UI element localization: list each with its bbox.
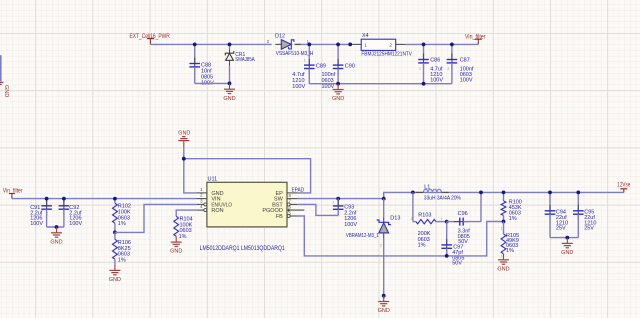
power port EXT_Cell16_PWR (130, 34, 171, 45)
ground below C91 C92 (50, 227, 62, 245)
junction C91 top (45, 197, 49, 201)
svg-text:1%: 1% (509, 216, 517, 222)
junction R103 C96 C97 node (445, 220, 449, 224)
svg-text:33uH 3A/4A 20%: 33uH 3A/4A 20% (424, 195, 461, 201)
svg-text:1: 1 (441, 217, 443, 221)
wire BST to C93 bottom (297, 204, 338, 215)
resistor R106 (113, 232, 131, 264)
inductor L1 33uH (416, 185, 461, 202)
wire SW rise to output rail (384, 192, 624, 198)
junction C86 top (422, 43, 426, 47)
svg-text:1%: 1% (506, 248, 514, 254)
wire RON to R104 (176, 210, 196, 216)
capacitor C87 (447, 44, 474, 83)
power port Vin_filter bottom (3, 189, 23, 199)
svg-text:SMAJ85A: SMAJ85A (235, 57, 255, 63)
capacitor C92 (59, 199, 83, 227)
power port Vin_filter top (465, 34, 486, 44)
junction C90 bottom (336, 82, 340, 86)
svg-text:50V: 50V (452, 260, 462, 266)
svg-text:RON: RON (211, 208, 223, 214)
junction C93 top (336, 197, 340, 201)
resistor R103 (413, 213, 447, 249)
node EPAD (292, 187, 305, 193)
svg-text:VSSAF510-M3_H: VSSAF510-M3_H (276, 51, 314, 57)
ground below CR1 (223, 83, 235, 101)
junction CR1 top (228, 43, 232, 47)
wire X4 to Vin_filter (405, 43, 478, 45)
wire ground to U11 GND pin and EPAD (184, 147, 311, 193)
wire SW output (297, 198, 383, 200)
junction C90 top (336, 43, 340, 47)
junction C94 C95 ground (565, 236, 569, 240)
ferrite bead X4 FBMJ2125HM1221NTV (352, 33, 412, 57)
svg-text:100V: 100V (69, 221, 82, 227)
svg-text:1: 1 (364, 42, 367, 47)
svg-text:C86: C86 (430, 58, 440, 64)
resistor R102 (113, 199, 131, 233)
svg-text:GND: GND (223, 96, 235, 102)
svg-text:GND: GND (178, 131, 190, 137)
junction R100 R105 FB (502, 220, 506, 224)
resistor R105 (501, 222, 519, 254)
ground below R105 (497, 254, 509, 272)
svg-text:2: 2 (501, 255, 503, 259)
ground below C94 C95 (561, 238, 573, 256)
wire L1 branch down to R103 (412, 192, 414, 221)
junction L1 R103 node (411, 191, 415, 195)
ground below R104 (170, 236, 182, 254)
ground below C90 (332, 84, 344, 102)
svg-text:C87: C87 (460, 58, 470, 64)
power port 12Vse (617, 183, 631, 193)
ground left edge (0, 82, 9, 97)
svg-text:2: 2 (334, 73, 336, 77)
junction C94 top (548, 191, 552, 195)
junction C86 bottom (422, 82, 426, 86)
svg-text:C89: C89 (316, 63, 326, 69)
capacitor C90 (322, 44, 355, 90)
capacitor C96 (447, 211, 481, 245)
junction C96 rail (479, 191, 483, 195)
wire stub left edge (0, 55, 2, 81)
junction C91 C92 ground (55, 225, 59, 229)
svg-text:GND: GND (378, 308, 390, 314)
pin marks (304, 59, 503, 259)
svg-text:2: 2 (419, 67, 421, 71)
junction X4 pin1 (348, 43, 352, 47)
wire C94 to C95 bottom (550, 237, 578, 239)
svg-text:VBRAM12-M3_1: VBRAM12-M3_1 (346, 233, 379, 239)
svg-text:GND: GND (170, 249, 182, 255)
svg-text:FB: FB (276, 214, 283, 220)
wire FB net (297, 216, 503, 256)
svg-text:100V: 100V (460, 77, 473, 83)
wire EXT_Cell16_PWR bus (150, 43, 271, 45)
junction C97 FB (445, 254, 449, 258)
wire D12 cathode to X4 (295, 43, 353, 45)
svg-text:100V: 100V (430, 77, 443, 83)
svg-text:2: 2 (447, 67, 449, 71)
resistor R100 (501, 192, 522, 222)
svg-text:GND: GND (332, 96, 344, 102)
svg-text:2: 2 (389, 42, 392, 47)
svg-text:GND: GND (3, 85, 9, 97)
svg-text:R103: R103 (418, 213, 431, 219)
wire C91 to C92 bottom (47, 226, 64, 228)
junction C87 top (450, 43, 454, 47)
svg-text:25V: 25V (584, 226, 594, 232)
capacitor C91 (30, 199, 52, 227)
svg-text:1%: 1% (118, 221, 126, 227)
svg-text:12Vse: 12Vse (617, 183, 631, 189)
svg-text:100V: 100V (30, 221, 43, 227)
junction ground node (182, 157, 186, 161)
junction D13 top (382, 197, 386, 201)
svg-text:GND: GND (561, 250, 573, 256)
capacitor C86 (418, 44, 443, 83)
junction C92 top (62, 197, 66, 201)
capacitor C88 (189, 44, 214, 86)
svg-text:100V: 100V (292, 84, 305, 90)
diode CR1 SMAJ85A (225, 44, 255, 83)
wire Vin_filter to U11 VIN (12, 198, 197, 200)
junction R102 top (113, 197, 117, 201)
junction C89 top (307, 43, 311, 47)
wire R102 junction to EN/UVLO (115, 204, 197, 232)
wire C89 to C87 ground rail (309, 83, 452, 85)
svg-text:1: 1 (304, 59, 306, 63)
junction C95 top (576, 191, 580, 195)
resistor R104 (174, 216, 193, 240)
junction C88 top (193, 43, 197, 47)
capacitor C93 (333, 199, 357, 228)
svg-text:1%: 1% (179, 234, 187, 240)
diode D13 VBRAM12-M3_1 (346, 199, 400, 296)
capacitor C89 (292, 44, 326, 90)
svg-text:1: 1 (501, 227, 503, 231)
junction R102 R106 (113, 231, 117, 235)
wire C96 to output rail (480, 192, 482, 221)
wire C88 to CR1 bottom (195, 82, 230, 84)
svg-text:FBMJ2125HM1221NTV: FBMJ2125HM1221NTV (361, 51, 412, 57)
junction D13 ground (382, 294, 386, 298)
svg-text:1%: 1% (418, 243, 426, 249)
svg-text:GND: GND (50, 239, 62, 245)
svg-text:GND: GND (497, 266, 509, 272)
ground below D13 (378, 296, 390, 314)
capacitor C97 (441, 222, 464, 267)
diode D12 VSSAF510-M3_H (267, 33, 314, 57)
capacitor C94 (545, 192, 568, 237)
op-amp U11 LM5012DDARQ1 (197, 177, 305, 252)
svg-text:LM5012DDARQ1 LM5013QDDARQ1: LM5012DDARQ1 LM5013QDDARQ1 (200, 246, 286, 252)
svg-text:X4: X4 (362, 33, 369, 39)
junction CR1 bottom (228, 82, 232, 86)
svg-text:2: 2 (380, 243, 382, 247)
svg-text:2: 2 (411, 217, 413, 221)
svg-text:D13: D13 (390, 216, 400, 222)
svg-text:C96: C96 (458, 211, 468, 217)
junction R100 top (502, 191, 506, 195)
svg-text:100V: 100V (344, 222, 357, 228)
svg-text:GND: GND (109, 277, 121, 283)
ground below R106 (109, 265, 121, 283)
svg-text:C90: C90 (345, 63, 355, 69)
svg-text:25V: 25V (556, 226, 566, 232)
ground above U11 (178, 131, 190, 148)
svg-text:D12: D12 (275, 33, 285, 39)
svg-text:1: 1 (332, 200, 334, 204)
capacitor C95 (573, 192, 596, 237)
svg-text:1%: 1% (118, 257, 126, 263)
